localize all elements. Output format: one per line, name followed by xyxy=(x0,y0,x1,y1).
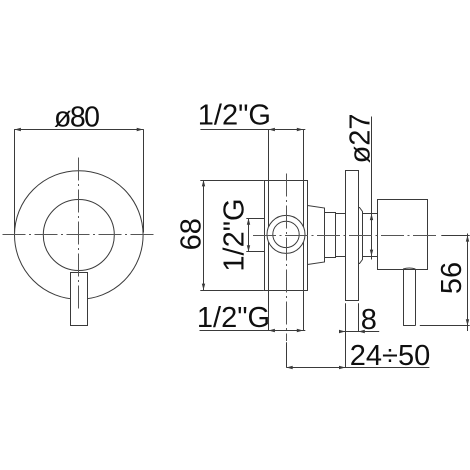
top inlet pipe left edge xyxy=(268,129,270,180)
extension line Ø80 right xyxy=(143,129,145,232)
svg-text:56: 56 xyxy=(436,262,468,294)
lever rod bottom edge xyxy=(403,325,415,327)
svg-text:1/2"G: 1/2"G xyxy=(198,99,271,131)
extension line 56 top xyxy=(441,235,469,237)
vertical centerline front view xyxy=(78,158,80,312)
svg-text:24÷50: 24÷50 xyxy=(350,340,430,372)
wall plate side view Ø80 xyxy=(346,171,359,301)
dimension line port 1/2"G xyxy=(248,218,250,251)
trim flange behind plate xyxy=(359,208,363,264)
svg-text:ø80: ø80 xyxy=(54,101,99,133)
handle outer circle front xyxy=(43,200,114,271)
handle body side view xyxy=(378,200,428,270)
Ø27 neck top edge xyxy=(336,213,346,215)
arrow 56 bottom xyxy=(466,319,469,325)
lever rod right edge xyxy=(415,270,417,326)
extension line plate left edge xyxy=(345,303,347,367)
extension line port top xyxy=(246,218,264,220)
arrow 68 bottom xyxy=(202,284,205,290)
arrow Ø27 top xyxy=(370,214,373,220)
side port inner circle xyxy=(273,221,299,247)
dimension line Ø27 xyxy=(371,117,373,260)
extension line Ø27 top xyxy=(362,213,377,215)
cartridge boss chamfer xyxy=(308,206,325,265)
side port outer circle 1/2"G xyxy=(267,215,305,253)
svg-text:8: 8 xyxy=(361,304,377,336)
lever handle front view xyxy=(71,273,88,326)
rosette outer circle Ø80 xyxy=(15,171,144,300)
dimension line 68 xyxy=(203,180,205,290)
pipe thread line left inside body xyxy=(268,180,270,290)
extension line port bottom xyxy=(246,251,264,253)
extension line 24÷50 left xyxy=(286,342,288,367)
valve body xyxy=(265,181,308,291)
svg-text:68: 68 xyxy=(175,218,207,250)
pipe thread line right inside body xyxy=(303,180,305,290)
dimension line Ø80 xyxy=(15,129,144,131)
dimension line top 1/2"G xyxy=(200,129,305,131)
horizontal centerline front view xyxy=(3,234,157,236)
extension line 68 top xyxy=(200,180,264,182)
extension line 68 bottom xyxy=(200,290,264,292)
dimension line 8 xyxy=(341,331,380,333)
extension line plate right edge xyxy=(358,303,360,331)
arrow 8 right (outside) xyxy=(358,330,364,333)
arrow 24÷50 right xyxy=(339,366,345,369)
arrow bottom pipe right xyxy=(297,329,303,332)
arrow 68 top xyxy=(202,180,205,186)
extension line Ø80 left xyxy=(14,129,16,232)
bottom outlet pipe right edge xyxy=(303,290,305,330)
arrow top pipe left xyxy=(269,128,275,131)
cartridge step cylinder xyxy=(325,213,336,258)
dimension line bottom 1/2"G xyxy=(200,330,306,332)
horizontal centerline main axis xyxy=(253,235,438,237)
arrow 8 left (outside) xyxy=(339,330,345,333)
arrow port top xyxy=(247,218,250,224)
top inlet pipe right edge xyxy=(303,129,305,180)
dimension line 24÷50 xyxy=(286,367,429,369)
arrow 56 top xyxy=(466,235,469,241)
arrow Ø80 left xyxy=(15,128,21,131)
svg-text:1/2"G: 1/2"G xyxy=(219,198,251,271)
extension line Ø27 bottom xyxy=(362,256,377,258)
bottom outlet pipe left edge xyxy=(268,290,270,330)
arrow port bottom xyxy=(247,245,250,251)
lever rod left edge xyxy=(403,270,405,326)
lever rod fillet arc xyxy=(403,268,415,269)
vertical centerline valve body xyxy=(286,174,288,342)
arrow top pipe right xyxy=(297,128,303,131)
dimension line 56 xyxy=(467,234,469,332)
Ø27 neck bottom edge xyxy=(336,256,346,258)
svg-text:1/2"G: 1/2"G xyxy=(197,302,270,334)
arrow bottom pipe left xyxy=(269,329,275,332)
arrow Ø80 right xyxy=(137,128,143,131)
arrow 24÷50 left xyxy=(286,366,292,369)
arrow Ø27 bottom xyxy=(370,250,373,256)
svg-text:ø27: ø27 xyxy=(345,113,377,163)
extension line 56 bottom xyxy=(420,325,470,327)
